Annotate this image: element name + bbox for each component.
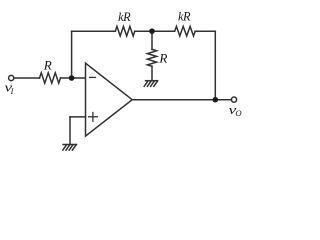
wire node A up xyxy=(71,31,73,78)
node A junction xyxy=(69,75,75,81)
svg-text:kR: kR xyxy=(118,10,131,24)
wire input to R1 xyxy=(15,77,40,79)
node B junction xyxy=(149,28,155,34)
svg-text:R: R xyxy=(158,50,167,65)
wire plus down xyxy=(69,117,71,145)
resistor kR2 xyxy=(175,26,196,36)
node C junction xyxy=(213,97,219,103)
wire right vertical feedback xyxy=(214,31,216,100)
ground left xyxy=(63,145,77,151)
op-amp minus sign xyxy=(90,76,96,78)
wire output xyxy=(132,99,231,101)
wire kR2 to right corner xyxy=(195,30,215,32)
op-amp plus sign xyxy=(89,113,98,122)
wire kR1 to kR2 xyxy=(135,30,175,32)
wire node B down xyxy=(151,31,153,49)
svg-text:O: O xyxy=(235,108,241,118)
resistor kR1 xyxy=(115,26,135,36)
wire top rail left xyxy=(72,30,116,32)
svg-text:I: I xyxy=(10,87,15,96)
wire R1 to op-amp xyxy=(61,77,86,79)
resistor R2 vertical xyxy=(147,49,156,66)
wire R2 to ground xyxy=(151,66,153,80)
wire plus input xyxy=(70,116,86,118)
output terminal vO xyxy=(231,97,236,102)
op-amp U1 xyxy=(86,63,133,136)
resistor R1 xyxy=(40,73,61,83)
svg-text:R: R xyxy=(43,57,52,72)
svg-text:kR: kR xyxy=(178,10,191,24)
input terminal vI xyxy=(9,75,14,80)
ground right xyxy=(144,81,157,87)
